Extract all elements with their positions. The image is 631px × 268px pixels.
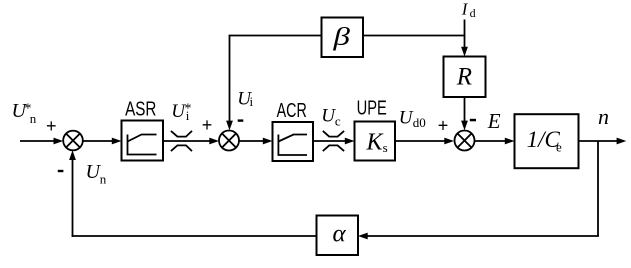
wire junction 1 to ASR xyxy=(83,140,113,142)
svg-text:ASR: ASR xyxy=(125,99,156,121)
op-amp ACR block xyxy=(273,122,314,161)
svg-text:i: i xyxy=(250,94,254,109)
svg-text:s: s xyxy=(383,140,388,155)
ACR saturation curve xyxy=(278,135,307,156)
svg-text:β: β xyxy=(332,24,350,51)
svg-text:d0: d0 xyxy=(413,115,426,130)
svg-text:e: e xyxy=(556,139,562,154)
wire feedback right vertical xyxy=(597,141,599,236)
svg-text:n: n xyxy=(598,104,609,129)
minus sign at junction 2 xyxy=(238,119,244,121)
svg-text:i: i xyxy=(186,108,190,123)
svg-text:R: R xyxy=(456,63,472,90)
wire top horizontal left segment to beta xyxy=(229,35,322,37)
node Ud0 label xyxy=(399,108,426,131)
motor 1/Ce block xyxy=(515,114,579,168)
wire output n xyxy=(579,140,619,142)
minus sign at junction 3 xyxy=(470,119,476,122)
svg-text:α: α xyxy=(333,221,347,248)
wire Ks to junction 3 xyxy=(395,140,446,142)
svg-text:ACR: ACR xyxy=(277,100,307,122)
op-amp ASR block xyxy=(122,121,164,161)
node Ui label xyxy=(237,89,253,110)
wire top horizontal right segment from Id line to beta xyxy=(363,35,465,37)
wire input U*n to summing junction 1 xyxy=(20,140,55,142)
wire current feedback vertical into junction 2 xyxy=(229,36,231,123)
svg-text:n: n xyxy=(30,111,37,126)
ASR saturation curve xyxy=(128,135,157,155)
node Id label xyxy=(461,0,476,20)
svg-text:UPE: UPE xyxy=(357,98,387,120)
wire feedback bottom left segment xyxy=(72,235,317,237)
svg-text:U: U xyxy=(399,108,414,129)
svg-text:E: E xyxy=(487,109,501,133)
summing junction 2 xyxy=(219,131,239,151)
wire Id vertical into R xyxy=(464,20,466,49)
wire R to junction 3 xyxy=(464,97,466,122)
svg-text:+: + xyxy=(202,115,213,135)
gain beta block xyxy=(322,18,364,58)
node U*n label xyxy=(12,100,37,126)
svg-text:d: d xyxy=(470,6,476,20)
resistor R block xyxy=(444,57,486,98)
wire junction 3 to 1/Ce xyxy=(475,140,507,142)
converter Ks block xyxy=(355,122,396,161)
node Un label xyxy=(86,161,107,187)
limiter symbol 2 xyxy=(323,131,344,137)
wire junction 2 to ACR xyxy=(239,140,264,142)
wire feedback bottom right segment into alpha xyxy=(367,235,599,237)
summing junction 3 xyxy=(455,131,475,151)
svg-text:+: + xyxy=(438,116,449,136)
wire ACR to limiter to Ks xyxy=(313,140,346,142)
svg-text:+: + xyxy=(46,116,57,136)
gain alpha block xyxy=(317,216,359,256)
minus sign at junction 1 xyxy=(58,170,64,172)
wire feedback left vertical into junction 1 xyxy=(72,159,74,237)
node U*i label xyxy=(171,101,191,123)
wire ASR to limiter to junction 2 xyxy=(163,140,211,142)
svg-text:c: c xyxy=(335,113,341,128)
node Uc label xyxy=(321,105,341,128)
limiter symbol 1 xyxy=(171,131,192,137)
svg-text:n: n xyxy=(100,172,107,187)
summing junction 1 xyxy=(63,131,83,151)
